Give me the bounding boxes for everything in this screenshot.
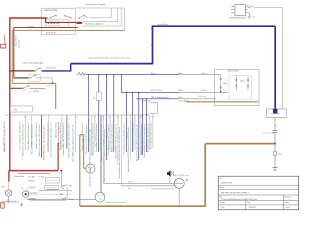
svg-text:Green Purple trace 14/0.30 Luc: Green Purple trace 14/0.30 Lucas l [123,123,126,155]
fuse right [274,151,277,155]
harness jog [149,102,157,113]
svg-text:Brown White trace 14/0.30 Luca: Brown White trace 14/0.30 Lucas loom ref… [118,127,121,178]
connector box red left [1,44,6,48]
svg-text:B.Grn: B.Grn [69,198,74,201]
wire col extra g1 [31,115,33,148]
junction dot switches [220,91,221,92]
wire relay line1 [38,189,72,191]
svg-text:Author: Author [219,186,224,189]
svg-text:White Black trace 14/0.30 Luca: White Black trace 14/0.30 Lucas lo [140,123,143,155]
wire col navy b [66,115,68,149]
svg-text:#: # [289,199,290,201]
switches inner frame [229,76,251,100]
wire red main vertical [9,17,11,170]
wire tan drop [55,83,57,109]
title block frame [218,176,298,210]
relay flasher box1 [45,178,59,183]
switch box row2 [29,74,41,81]
control box "Interior Pump" [42,8,76,34]
wire right stem 2 [274,127,276,130]
svg-text:Green fuse 3 14/0.30 Lucas loo: Green fuse 3 14/0.30 Lucas loom r [86,123,88,154]
svg-text:Tmp (A): Tmp (A) [28,186,35,189]
feed wire tan [186,101,258,103]
connector box red bottom left [1,203,4,208]
svg-text:Switchface lights on: Switchface lights on [85,23,104,26]
wire col x140.9 [140,115,142,155]
svg-text:Lt.Grn.Blue: Lt.Grn.Blue [28,192,38,195]
svg-text:SWITCHES: SWITCHES [228,71,240,73]
svg-text:Black: Black [202,73,207,75]
junction dots header1 [88,74,89,75]
switch pair right B [62,198,63,199]
wire col x103.4 [102,115,104,183]
svg-text:THE PHOTOELECTRIC EFFECT: THE PHOTOELECTRIC EFFECT [221,193,250,195]
wire drop d2 with fuse [98,75,100,92]
wire col extra g3 [61,115,63,149]
SECTION-RIGHT [263,118,282,171]
wire col x149.5 [149,115,151,150]
IC U1 [235,5,245,16]
wire red row3 tail [29,87,45,89]
wire relay line2 faint [28,194,72,196]
wire red thin second [18,172,50,174]
feed wire F3 [136,98,179,100]
wire drop x121.3 [120,75,122,93]
connector arrows right [274,123,276,126]
harness connector line [5,114,150,116]
title block cols [246,195,284,210]
wire right cluster vertical [66,187,68,198]
relay flasher box2 [45,185,59,189]
svg-text:C:\Users\GREG\Regnum\Tun\CAD\O: C:\Users\GREG\Regnum\Tun\CAD\OPEN_1.dia [221,198,257,201]
pins U1 right [245,7,249,13]
svg-text:Interior Pump: Interior Pump [44,9,59,12]
wire red riser to relay [57,143,59,171]
svg-text:make.coffee.Beep.Bar: make.coffee.Beep.Bar [23,62,44,65]
svg-text:(TH 1) SuperSeeder: (TH 1) SuperSeeder [151,97,169,99]
svg-text:d 1 Interface: d 1 Interface [46,67,57,70]
svg-text:fuse 2 feed: fuse 2 feed [15,36,17,46]
switch S1 in pump box [50,17,51,18]
svg-text:Date: Date [247,201,251,204]
ground right [273,168,278,171]
svg-text:2/6/2009: 2/6/2009 [249,207,256,209]
SECTION-DENSE [3,75,157,193]
svg-text:Green.Blue: Green.Blue [158,23,169,26]
ground sym under lamp [7,196,11,202]
switches box [215,69,260,105]
svg-text:Turn: Turn [21,187,24,191]
svg-text:P.Lk: P.Lk [69,186,73,188]
svg-text:Green White trace 14/0.30 Luca: Green White trace 14/0.30 Lucas loom ref [72,124,75,162]
SECTION-BOTTOM [1,135,275,208]
wire tan loop bottom [80,144,275,207]
wire col x94.9 [94,115,96,148]
svg-text:R.G: R.G [1,186,5,188]
connector nubs on riser [151,29,153,45]
wire AC bottom line [151,188,175,190]
starter M1 [95,192,105,202]
svg-text:From Marine Supply: From Marine Supply [86,3,107,6]
wire drop x113.8 [113,75,115,152]
svg-text:White w Green trace 14/0.30 Lu: White w Green trace 14/0.30 Lucas l [38,123,41,156]
svg-text:Lt.Grn.Brown: Lt.Grn.Brown [47,188,58,191]
junction dots F2 [126,92,127,93]
svg-text:diode: diode [278,153,282,155]
svg-text:2hm: 2hm [128,188,132,190]
svg-text:Green Black 14/0.30 Lucas loo: Green Black 14/0.30 Lucas loo [28,122,30,150]
svg-text:wiper: wiper [240,79,245,82]
svg-text:o1: o1 [247,5,249,7]
ground row2 [51,83,55,85]
svg-text:Brown with Green trace 14/0.30: Brown with Green trace 14/0.30 Lucas loo… [89,130,92,186]
wire loop R2 [83,8,118,22]
svg-text:Grade: Grade [284,201,289,204]
svg-text:Green with Red 14/0.30 Lucas l: Green with Red 14/0.30 Lucas loom re [49,122,52,157]
wire right stem 4 [274,155,276,167]
switch pair right A [62,185,63,186]
wire drop x138.8 [138,92,140,160]
wire brown heater horizontal [14,26,78,28]
title block rows [218,185,298,205]
svg-text:Purple Black trace 14/0.30 Luc: Purple Black trace 14/0.30 Lucas loom [67,123,70,158]
wire AC drop [178,188,180,206]
svg-text:Lt.G.B: Lt.G.B [39,175,45,178]
wire navy bus horizontal [71,63,153,65]
wire drop x146.3 [145,99,147,152]
svg-text:25mm: 25mm [128,182,134,184]
svg-text:Blue Green trace 14/0.30 Lucas: Blue Green trace 14/0.30 Lucas loom ref [135,125,138,161]
speaker SP1 [167,170,171,177]
wire red feed horizontal [10,17,48,19]
fuse F1 red [76,22,82,24]
svg-text:Blue Red trace 14/0.30 Lucas l: Blue Red trace 14/0.30 Lucas lo [146,123,149,152]
wire loop R3 [82,8,121,26]
svg-text:Blue with White 14/0.30 Lucas: Blue with White 14/0.30 Lucas loom re [114,123,117,158]
wire drop x132.6 [132,92,134,152]
generator G1 [86,164,95,173]
svg-text:85 86 87 30: 85 86 87 30 [46,32,56,34]
switch S5 row3 [23,88,24,89]
svg-text:1 of 1: 1 of 1 [286,207,291,209]
wire loop R4 [121,8,124,30]
wire col gray c [75,115,77,152]
wire tan B to generator [80,135,86,169]
wire tan vertical left [12,30,124,83]
connector ticks row3 [23,91,31,92]
svg-text:B.Lt.Grn: B.Lt.Grn [199,95,206,98]
svg-text:SIMPLE PID: SIMPLE PID [221,183,232,185]
switch blade under teal [62,188,65,190]
svg-text:Brown Blue trace 14/0.30 Luca: Brown Blue trace 14/0.30 Luca [59,122,62,150]
wire col x91.8 [91,115,93,155]
svg-text:MOTOROLA HC11: MOTOROLA HC11 [229,16,247,19]
wire gray row2 tail [36,78,53,83]
wire col navy long [120,115,122,186]
wire starter h2 [121,185,176,187]
svg-text:motor wire extra circuit: motor wire extra circuit [106,201,125,204]
wire col x110 [109,115,111,152]
wire darkred row1 [10,70,34,72]
wire col red a [41,115,43,158]
svg-text:4.1: 4.1 [221,207,224,209]
svg-text:Title: Title [219,177,222,180]
wire brown row2 [14,77,28,79]
junction dots harness [142,114,143,115]
svg-text:Heater: Heater [29,25,36,28]
wire relay line3 [30,199,66,201]
wire tan horizontal [12,82,56,84]
svg-text:MAIN BATT 25/0.30 cable 14/0.3: MAIN BATT 25/0.30 cable 14/0.30 [3,121,6,152]
ground sym mid [20,202,23,207]
svg-text:Black: Black [201,90,206,92]
svg-text:B.Y.Wht: B.Y.Wht [28,179,35,182]
wire right stem 3 [274,133,276,151]
svg-text:Blue with White 14/0.30 Lucas: Blue with White 14/0.30 Lucas loo [30,123,33,154]
svg-text:(W) fuse: (W) fuse [144,100,151,102]
feed wire F1 gray part [179,74,221,76]
wire navy row1 to bus [42,64,71,71]
wire tan A vertical [79,135,81,206]
wire col x130.3 [129,115,131,158]
terminal marks AC [186,180,188,181]
svg-text:Denim: Denim [30,198,36,200]
svg-text:t34 (2): t34 (2) [34,90,40,93]
svg-text:Green with Brown 14/0.30 Luca: Green with Brown 14/0.30 Luca [18,121,21,150]
svg-text:Green w White 14/0.30 Lucas lo: Green w White 14/0.30 Lucas loom ref [143,123,146,158]
wire brown vertical [13,27,15,78]
svg-text:Slate trace 9/0.30: Slate trace 9/0.30 [54,121,57,138]
switch S6 at IC [249,7,250,8]
switch S3 cluster [79,17,80,18]
switch chain B [235,76,237,90]
wire blue bottom [27,198,96,200]
svg-text:White Brown trace 14/0.30 Luca: White Brown trace 14/0.30 Lucas loo [92,122,95,156]
svg-text:gnd: gnd [252,17,255,19]
switch chain C [247,76,249,90]
switch chain A [220,75,222,92]
wire loop R1 [75,8,111,18]
wire col x135 [134,115,136,150]
svg-text:(US 10) Bect: (US 10) Bect [151,89,163,92]
wire drop d1 [88,75,90,152]
pins U1 left [231,6,235,13]
capacitor C1 [273,131,278,133]
AC motor M2 [174,178,184,188]
wire drop x126.3 [125,92,127,152]
wire navy bus top [152,25,276,27]
svg-text:Red w White trace 14/0.30 Luca: Red w White trace 14/0.30 Lucas loom r [42,124,45,160]
svg-text:Black Green trace 14/0.30 Luca: Black Green trace 14/0.30 Lucas loom ref… [103,129,106,182]
wire col extra g2 [47,115,49,152]
wire drop x106.4 [105,75,107,160]
svg-text:sw panel: sw panel [19,40,21,48]
svg-text:Green Blue 14/0.30 Lucas loom: Green Blue 14/0.30 Lucas loom r [96,122,98,152]
box LPS [10,106,32,112]
wire navy bus riser [152,26,154,64]
SECTION-TOPLEFT [1,3,125,170]
wire col left gray [24,115,26,150]
svg-text:Green fan feed 14/0.30 Lucas: Green fan feed 14/0.30 Lucas [151,123,153,149]
relay inner box [45,20,69,28]
svg-text:White Green 14/0.30 Lucas lo: White Green 14/0.30 Lucas lo [35,122,38,149]
lamp L1 [5,190,11,196]
svg-text:Gray Relay: Gray Relay [15,175,25,178]
wire navy bus right drop [274,26,276,113]
indicator L2 [23,191,29,197]
ground at IC [248,13,251,19]
fusible link below bus [77,72,86,75]
SECTION-TOPRIGHT [229,5,282,109]
svg-text:Version: Version [219,201,225,204]
wire starter feed [100,115,102,192]
svg-text:(perhaps BLL Provide circuit b: (perhaps BLL Provide circuit black view … [89,57,131,60]
connector pins tan [88,116,89,118]
junction dot red [60,170,62,172]
switch S2 in pump box [64,15,65,16]
svg-text:white: white [223,82,227,85]
svg-text:Brown w Blue 14/0.30 Lucas loo: Brown w Blue 14/0.30 Lucas loom re [63,122,65,155]
wire red stub to lamp [8,171,10,182]
svg-text:Black w White 14/0.30 Lucas lo: Black w White 14/0.30 Lucas loom ref 549… [127,126,130,172]
wire red relay output [46,18,77,22]
svg-text:Green Slate trace 14/0.30 Luca: Green Slate trace 14/0.30 Lucas [132,123,135,152]
wire teal drop from red [60,171,62,188]
svg-text:1 FS: 1 FS [12,109,17,111]
svg-text:Grn Rly: Grn Rly [28,175,34,178]
wire speaker stem [169,177,171,183]
svg-text:White lamp feed 14/0.30 Lucas: White lamp feed 14/0.30 Lucas l [110,123,113,152]
coil box right [266,109,286,118]
wire col x117.9 [117,115,119,165]
svg-text:SuperBytes: SuperBytes [179,99,189,102]
svg-text:BRN/STR: BRN/STR [4,34,6,44]
ground rail bottom left [1,201,19,203]
SECTION-TITLE [218,176,298,210]
svg-text:White w Red trace 14/0.30 Luca: White w Red trace 14/0.30 Lucas loom ref [100,124,103,162]
svg-text:A (2) (2) A.C unit: A (2) (2) A.C unit [175,174,189,177]
svg-text:Green Red trace 14/0.30 Lucas: Green Red trace 14/0.30 Lucas l [46,123,49,152]
wire starter h1 [103,182,174,184]
wire right stem upper [274,118,276,123]
svg-text:White Blue trace 14/0.30 Lucas: White Blue trace 14/0.30 Lucas loom [21,123,24,156]
switch S4 row1 [34,70,35,71]
junction dot tan [274,143,276,145]
junction dot coil [273,109,278,114]
svg-text:1n (2) wire BNC: 1n (2) wire BNC [263,132,276,134]
wire gray from IC [254,8,283,109]
wire drop x142.6 [142,99,144,155]
wire red row3 [10,87,23,89]
SECTION-MID [71,23,286,117]
wire col x152.9 [152,113,154,148]
feed wire F2 [121,91,179,93]
wire header1 [86,74,179,76]
wire red bottom horizontal [9,170,58,172]
svg-text:15: 15 [93,97,95,99]
relay coil dashes [48,22,59,24]
svg-text:Green Black trace 14/0.30 Luca: Green Black trace 14/0.30 Lucas loo [107,123,110,156]
